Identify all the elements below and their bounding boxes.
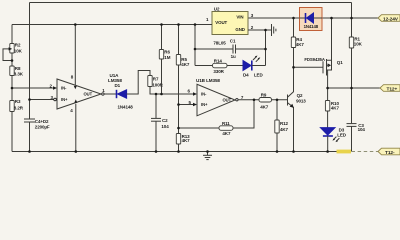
svg-text:C2: C2: [162, 118, 168, 123]
svg-text:104: 104: [358, 127, 366, 132]
resistor R8: [10, 66, 24, 77]
regulator U2 78L05: [206, 6, 254, 45]
svg-text:U1B LM358: U1B LM358: [196, 78, 220, 83]
svg-text:Q1: Q1: [337, 60, 343, 65]
wire C1 branch: [195, 25, 266, 66]
svg-text:D4: D4: [243, 73, 249, 78]
wire U2 pin2 ground: [248, 29, 272, 31]
svg-text:Q2: Q2: [297, 93, 303, 98]
svg-text:1M: 1M: [164, 55, 170, 60]
svg-text:104: 104: [161, 124, 169, 129]
svg-text:OUT: OUT: [223, 97, 232, 102]
LED D4: [227, 56, 266, 78]
wire +5V rail: [12, 24, 212, 26]
svg-text:2200µF: 2200µF: [35, 125, 50, 130]
wire U1A pin4 to ground: [70, 99, 77, 151]
wire highlighted segment to T12-: [337, 150, 379, 154]
svg-text:VIN: VIN: [236, 15, 243, 20]
port 12-24V: [378, 15, 400, 23]
op-amp U1A: [50, 73, 123, 109]
svg-text:IN+: IN+: [201, 102, 208, 107]
svg-text:T12-: T12-: [385, 150, 395, 156]
wire top rail: [30, 2, 352, 4]
wire U1B pin5 input: [179, 100, 198, 106]
port T12-: [378, 148, 400, 156]
wire U1A pin3 input: [30, 98, 57, 101]
resistor R5: [176, 25, 190, 68]
svg-text:C4+D2: C4+D2: [35, 119, 49, 124]
wire R11 feedback loop: [179, 100, 255, 128]
svg-text:4K7: 4K7: [260, 105, 269, 110]
svg-text:1N4148: 1N4148: [304, 24, 319, 29]
svg-text:330R: 330R: [213, 69, 224, 74]
wire U1A pin8 to +5V: [71, 25, 77, 90]
svg-text:4K7: 4K7: [182, 138, 191, 143]
svg-text:OUT: OUT: [84, 92, 93, 97]
resistor R12: [275, 100, 289, 152]
resistor R1: [349, 18, 362, 88]
resistor R14: [195, 58, 227, 74]
resistor R13: [176, 134, 190, 152]
wire T12+ output: [328, 87, 380, 89]
wire Q1 gate: [294, 66, 324, 68]
LED D3: [320, 127, 346, 151]
wire right vertical from top rail to V+ node: [351, 3, 353, 19]
svg-text:4K7: 4K7: [296, 42, 305, 47]
svg-text:4K7: 4K7: [181, 62, 190, 67]
svg-text:FDS9435A: FDS9435A: [304, 57, 324, 62]
wire R9 to Q2 base: [272, 99, 288, 101]
svg-text:R3: R3: [15, 99, 21, 104]
svg-text:LED: LED: [254, 73, 264, 78]
svg-text:LED: LED: [337, 133, 347, 138]
port T12+: [380, 85, 400, 93]
svg-text:1N4148: 1N4148: [118, 104, 134, 109]
svg-text:10K: 10K: [14, 48, 23, 53]
wire R7 to U1B pin6: [150, 87, 197, 96]
wire U1B output: [236, 95, 259, 101]
svg-text:3.3K: 3.3K: [14, 72, 24, 77]
wire left divider chain: [11, 25, 13, 152]
wire R2 wiper loop: [3, 47, 12, 60]
diode D1 1N4148: [115, 83, 134, 110]
svg-text:R9: R9: [261, 92, 267, 97]
capacitor C2: [151, 94, 169, 152]
svg-text:VOUT: VOUT: [215, 20, 227, 25]
svg-text:R14: R14: [214, 58, 223, 63]
capacitor C3: [347, 88, 366, 152]
wire U2 pin1: [195, 24, 212, 26]
svg-text:C1: C1: [230, 39, 236, 44]
wire left vertical from top rail to C4: [29, 3, 31, 120]
resistor R11: [219, 121, 233, 136]
svg-text:78L05: 78L05: [213, 41, 226, 46]
resistor R7: [148, 76, 164, 88]
svg-text:4K7: 4K7: [280, 127, 289, 132]
resistor R4: [291, 18, 304, 67]
wire D1 to R7 loop: [127, 71, 150, 95]
transistor Q2 9013: [288, 67, 307, 151]
ground symbol right of U2: [272, 24, 276, 36]
wire ground rail: [12, 151, 337, 153]
svg-text:4K7: 4K7: [222, 131, 231, 136]
svg-text:4K7: 4K7: [331, 105, 340, 110]
wire V+ rail: [248, 17, 378, 19]
ground symbol bottom: [203, 152, 212, 160]
svg-text:9013: 9013: [296, 99, 306, 104]
svg-text:10K: 10K: [354, 41, 363, 46]
op-amp U1B: [196, 78, 235, 116]
svg-text:1u: 1u: [231, 54, 236, 59]
mosfet Q1 FDS9435A: [304, 18, 343, 88]
svg-text:U2: U2: [214, 6, 220, 11]
resistor R3: [10, 99, 24, 112]
svg-text:IN-: IN-: [61, 86, 67, 91]
capacitor C4: [24, 119, 50, 130]
resistor R6: [159, 25, 170, 95]
svg-text:T12+: T12+: [387, 86, 398, 92]
svg-text:D1: D1: [115, 83, 121, 88]
svg-text:12-24V: 12-24V: [383, 16, 399, 22]
diode D2 1N4148 selected: [300, 8, 323, 31]
wire U1A output: [102, 93, 117, 95]
svg-text:R6: R6: [164, 49, 170, 54]
svg-text:GND: GND: [235, 27, 244, 32]
resistor R10: [325, 88, 339, 128]
svg-text:R2: R2: [15, 43, 21, 48]
svg-text:8.2R: 8.2R: [14, 106, 24, 111]
svg-text:R8: R8: [15, 66, 21, 71]
resistor R2: [10, 43, 23, 54]
capacitor C1: [230, 39, 236, 59]
wire divider node chain: [178, 65, 180, 134]
wire U1A pin2 input: [12, 86, 57, 89]
svg-text:IN+: IN+: [61, 97, 68, 102]
wire C4 bottom to ground rail: [29, 122, 31, 152]
svg-text:R11: R11: [222, 121, 230, 126]
svg-text:IN-: IN-: [201, 91, 207, 96]
resistor R9: [259, 92, 272, 109]
svg-text:R12: R12: [280, 121, 289, 126]
svg-text:R7: R7: [153, 77, 159, 82]
